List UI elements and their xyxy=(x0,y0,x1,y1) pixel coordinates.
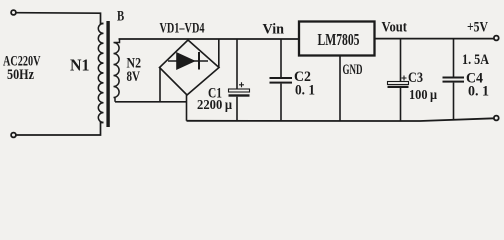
svg-text:0. 1: 0. 1 xyxy=(468,84,489,100)
wire GND stub xyxy=(339,56,341,121)
svg-text:0. 1: 0. 1 xyxy=(295,83,315,99)
wire top-left lead xyxy=(16,13,104,24)
capacitor C3 xyxy=(388,39,409,121)
terminal bottom-left xyxy=(11,133,16,138)
svg-text:B: B xyxy=(117,9,124,25)
transformer secondary winding N2 xyxy=(114,39,120,102)
capacitor C4 xyxy=(443,39,465,121)
transformer primary winding N1 xyxy=(98,24,103,123)
svg-text:Vout: Vout xyxy=(382,20,408,36)
wire bridge right corner to top rail xyxy=(218,39,220,67)
terminal top-left xyxy=(11,10,16,15)
svg-text:+5V: +5V xyxy=(467,20,488,36)
diode (inside bridge) xyxy=(168,52,208,70)
svg-text:100 μ: 100 μ xyxy=(409,88,437,103)
wire bridge bottom corner to ground rail xyxy=(186,95,188,121)
wire output rail xyxy=(375,38,495,40)
terminal bottom-right xyxy=(494,116,499,121)
svg-text:VD1–VD4: VD1–VD4 xyxy=(160,21,205,37)
svg-text:GND: GND xyxy=(343,62,363,78)
svg-text:8V: 8V xyxy=(127,69,141,85)
regulator U1 LM7805 box xyxy=(299,22,375,56)
svg-text:2200 μ: 2200 μ xyxy=(197,98,232,113)
svg-text:1. 5A: 1. 5A xyxy=(462,52,489,68)
wire top rail (secondary top to regulator input) xyxy=(119,38,300,40)
transformer core xyxy=(106,21,109,127)
wire bridge left corner to line A xyxy=(159,68,161,102)
svg-text:Vin: Vin xyxy=(263,22,285,38)
terminal top-right xyxy=(494,36,499,41)
wire ground rail xyxy=(187,118,495,121)
capacitor C1 xyxy=(229,39,250,120)
svg-text:LM7805: LM7805 xyxy=(318,30,360,49)
wire secondary bottom (line A) xyxy=(115,101,187,103)
svg-text:N1: N1 xyxy=(70,56,90,75)
wire bottom-left lead xyxy=(16,123,104,136)
svg-text:50Hz: 50Hz xyxy=(7,67,34,83)
svg-text:C3: C3 xyxy=(408,70,423,86)
bridge rectifier VD1-VD4 xyxy=(160,40,220,95)
capacitor C2 xyxy=(270,39,293,121)
